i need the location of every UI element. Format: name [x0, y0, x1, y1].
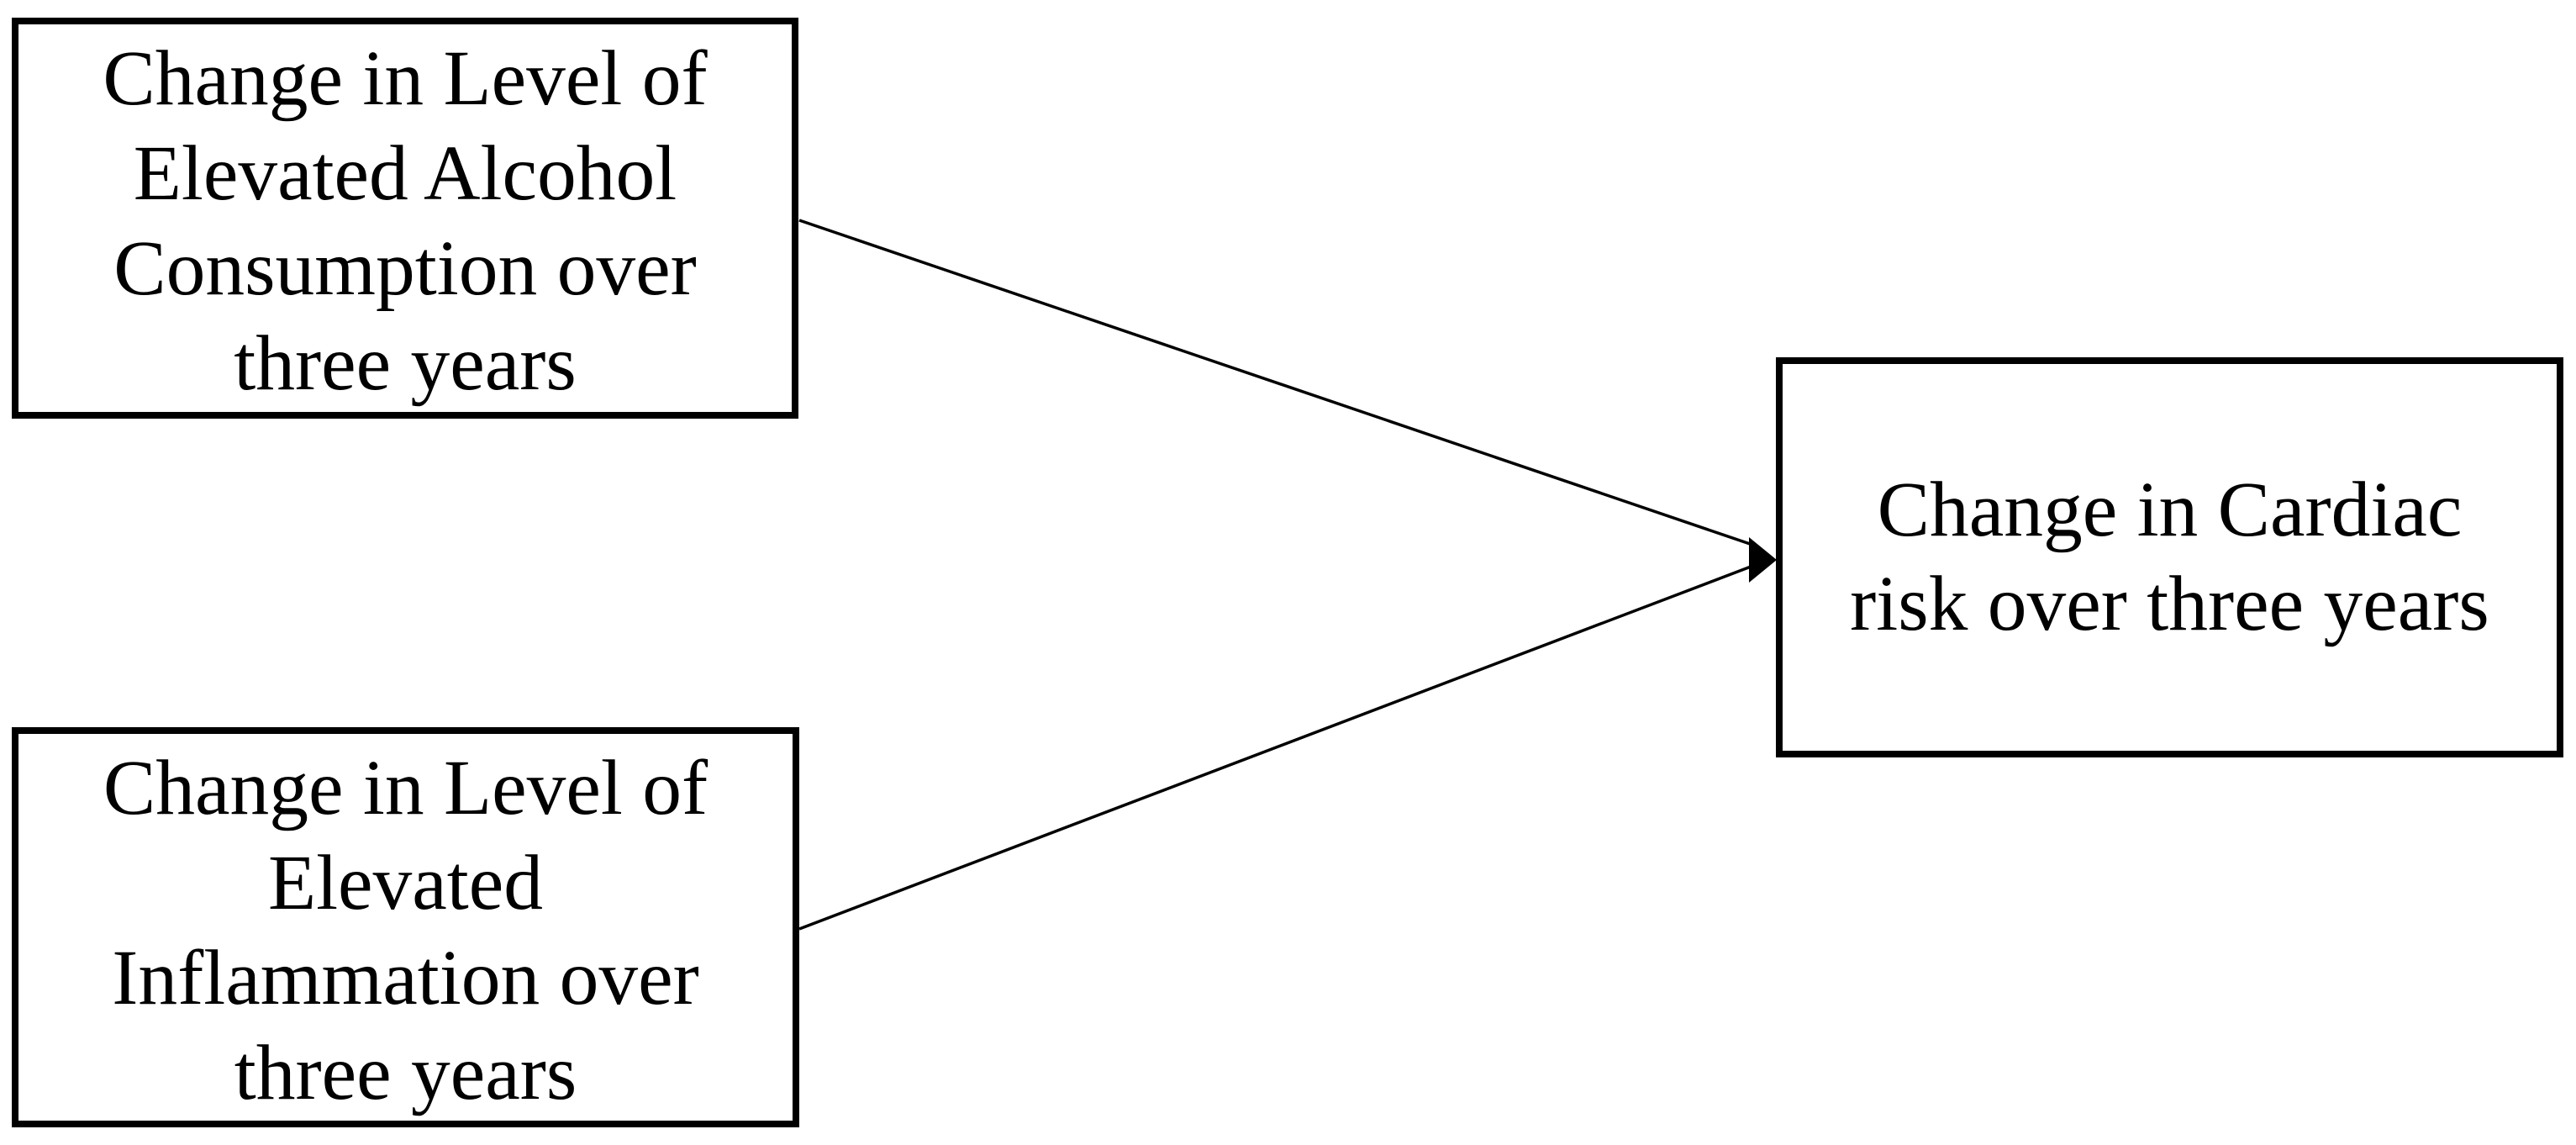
node: Change in Cardiac risk over three years (right box): [1776, 357, 2563, 757]
arrowhead at Cardiac box: [1749, 537, 1777, 583]
node: Change in Level of Elevated Inflammation over three years (bottom-left box): [12, 727, 799, 1127]
node: Change in Level of Elevated Alcohol Consumption over three years (top-left box): [12, 18, 798, 419]
wire: arrow line from Inflammation box to Cardiac box: [799, 564, 1757, 929]
wire: arrow line from Alcohol box to Cardiac box: [799, 220, 1757, 546]
